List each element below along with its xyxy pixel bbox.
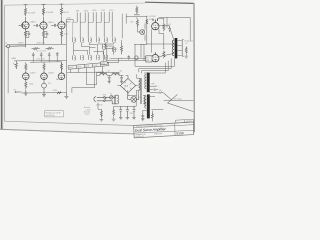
svg-text:6AU6: 6AU6 (56, 78, 60, 81)
B+ chain resistor R21 (136, 6, 138, 14)
wire cathode bus left (26, 38, 62, 44)
scan top-right page edge (145, 2, 194, 3)
fuse F1 (105, 96, 115, 99)
filter cap C16C (132, 106, 136, 120)
cathode resistor R5 (42, 29, 44, 38)
bypass cap C5 (43, 32, 48, 38)
svg-text:470K: 470K (53, 90, 58, 92)
bleeder resistor R30 (100, 109, 102, 118)
connector row 1 pins (73, 38, 116, 43)
resistor R24 load (185, 46, 187, 53)
wire T2 primary leads (147, 25, 174, 56)
junction dots right (135, 16, 165, 49)
bypass cap C4 (26, 31, 31, 37)
terminal strip TB1 (68, 62, 109, 69)
label to speaker (184, 41, 193, 46)
pot R11 (13, 61, 17, 69)
cap C6 (32, 52, 35, 57)
filter cap C15A (108, 75, 111, 83)
svg-text:470: 470 (48, 83, 51, 85)
tube V1 (22, 22, 29, 29)
resistor R20 (136, 19, 138, 27)
input jack J2 (15, 91, 22, 93)
cap C7 (40, 52, 43, 57)
B+ feed arrow 2 (42, 4, 46, 8)
wire mid verticals (8, 48, 57, 93)
wire cable cross ties (73, 22, 109, 38)
wire T1 sec leads (137, 74, 139, 96)
grid resistor R9 (32, 47, 40, 49)
svg-text:.02 .02 250K: .02 .02 250K (36, 50, 47, 52)
wire output chevron (164, 93, 194, 112)
T3 primary winding (145, 74, 146, 89)
filter cap C16A (119, 106, 123, 119)
wire B+ filter bus (96, 73, 119, 76)
wire input run (12, 45, 25, 48)
svg-text:not 20% (5): not 20% (5) (46, 114, 55, 117)
plate resistor R22 (163, 23, 165, 31)
ground lower right (64, 93, 68, 99)
svg-text:5198: 5198 (176, 131, 184, 135)
junction bias node (121, 58, 122, 59)
resistor R26 on B+ riser (146, 19, 148, 24)
power transformer T1 secondary (139, 78, 146, 104)
svg-text:16: 16 (185, 43, 187, 45)
svg-text:+: + (118, 107, 119, 109)
svg-text:47-7208: 47-7208 (28, 12, 36, 14)
svg-text:Cal Output: Cal Output (174, 97, 183, 100)
wire feedback loop inner (139, 58, 171, 72)
svg-text:GAIN: GAIN (11, 57, 16, 60)
svg-text:115 V: 115 V (109, 10, 114, 12)
wire cable pair 5 (109, 12, 112, 37)
svg-text:+ 40: + 40 (106, 71, 110, 73)
resistor R17 horizontal (57, 92, 61, 94)
svg-text:MOD: MOD (84, 10, 89, 12)
wire bridge leads (117, 75, 137, 95)
scan right page edge (193, 3, 195, 133)
label cable designations (76, 10, 114, 13)
wire cable pair 4 (101, 12, 104, 37)
svg-text:C16: C16 (129, 113, 132, 115)
title block text (135, 127, 167, 133)
svg-text:PL: PL (139, 97, 141, 99)
screen resistor R23 (163, 51, 165, 59)
label terminal strip cells (69, 64, 106, 69)
wire strip drops (71, 66, 103, 85)
svg-text:1: 1 (158, 86, 159, 88)
note box (45, 111, 64, 117)
ground V5 cathode (42, 92, 46, 97)
svg-text:SW: SW (103, 94, 106, 96)
wire bias horizontals (103, 45, 145, 63)
T3 tap cap C14 (150, 88, 158, 90)
wire output link horizontal (164, 99, 194, 101)
wire heater bus left (67, 72, 105, 93)
wire lower input run (21, 92, 63, 94)
switch S1 (100, 97, 106, 102)
svg-text:12AU7: 12AU7 (30, 72, 36, 75)
tube V3 (58, 22, 65, 29)
output tube V8 (152, 52, 159, 62)
grid coupling cap C3 (51, 24, 58, 27)
modulation transformer T3 core upper (147, 73, 150, 93)
cap C9 (56, 52, 59, 57)
output transformer T2 core (175, 38, 178, 58)
ground R31 (112, 117, 116, 121)
wire Q1 links (137, 23, 145, 40)
cap C13 electrolytic (168, 26, 171, 32)
tube V5 (41, 72, 48, 80)
wire interbay crossings (73, 42, 113, 55)
resistor R2 plate load (42, 8, 44, 16)
choke L1 (100, 73, 107, 76)
filter cap C15B (120, 75, 123, 83)
svg-text:values: values (85, 114, 90, 116)
wire left col to V6 (62, 62, 67, 93)
bridge rectifier BR1 (120, 78, 135, 92)
svg-text:115V 60: 115V 60 (96, 105, 103, 107)
wire feedback loop third (141, 61, 168, 73)
grid resistor R10 (46, 47, 54, 49)
ground R30 (100, 118, 104, 122)
resistor R3 plate load (60, 8, 62, 16)
svg-text:+: + (125, 107, 126, 109)
svg-text:F1: F1 (110, 94, 112, 96)
power transformer T1 primary (105, 95, 119, 104)
cathode resistor R15 (25, 80, 27, 89)
svg-text:68-03: 68-03 (63, 12, 69, 14)
svg-text:6V6: 6V6 (149, 19, 152, 21)
wire T3 bottom links (143, 110, 153, 121)
wire heater drops bottom (72, 73, 97, 93)
bias resistor R18 (120, 43, 122, 55)
cathode resistor R6 (60, 29, 62, 38)
tube V4 (23, 72, 30, 80)
grid coupling cap C2 (33, 24, 40, 27)
connector row 2 pins (73, 47, 116, 60)
wire V3 plate (61, 16, 63, 21)
T3 bottom resistor R32 (151, 112, 153, 119)
wire top right feed (122, 14, 147, 45)
modulation transformer T3 core lower (147, 94, 150, 118)
title block (134, 119, 194, 138)
scan left edge (1, 0, 3, 130)
scan bottom page edge (0, 129, 194, 134)
cathode pot R16 (42, 80, 47, 92)
speaker terminal bracket (182, 40, 183, 57)
B+ feed arrow 1 (24, 4, 28, 8)
svg-text:COM: COM (101, 10, 106, 12)
choke L2 (112, 73, 119, 76)
wire choke row (100, 73, 124, 76)
svg-text:220K 47K: 220K 47K (37, 42, 46, 44)
tube V2 (40, 22, 47, 29)
wire cable pair 2 (85, 12, 88, 37)
resistor R12 vertical (25, 62, 27, 71)
svg-text:12AU7: 12AU7 (48, 72, 54, 75)
terminal cell aux (101, 62, 108, 65)
T3 tap stub 1 (150, 85, 157, 86)
T3 tap resistor R25 (158, 92, 163, 94)
svg-text:47-0508: 47-0508 (46, 12, 54, 14)
svg-text:DATE 6-12: DATE 6-12 (136, 135, 144, 138)
wire plate feed V3 (66, 20, 73, 73)
ground R24 (184, 54, 188, 58)
T3 tap stub 2 (150, 93, 159, 97)
svg-text:+B 250V: +B 250V (148, 16, 156, 18)
grid coupling cap C1 (19, 24, 26, 27)
cathode resistor R4 (24, 29, 26, 38)
B+ feed arrow 3 (60, 4, 64, 8)
svg-text:P2: P2 (14, 89, 16, 91)
frame border (3, 5, 5, 121)
wire ac risers (98, 90, 139, 109)
svg-text:J-1017: J-1017 (186, 121, 192, 123)
notes text (84, 106, 91, 115)
ground V4 cathode (24, 90, 28, 96)
interlock box SW2 (146, 56, 152, 62)
svg-text:2 W: 2 W (159, 90, 162, 92)
T3 secondary winding (145, 97, 146, 109)
resistor R14 vertical (60, 62, 62, 71)
cap C8 (48, 52, 51, 57)
wire top row bus (8, 43, 66, 46)
input jack J1 (5, 45, 12, 48)
svg-text:12AX7: 12AX7 (48, 21, 55, 24)
phase inverter tube V7 (152, 19, 159, 30)
transistor Q1 (139, 30, 145, 35)
wire filter top bus (114, 96, 137, 108)
wire inverter couplings (152, 18, 164, 52)
wire T2 secondary leads (177, 41, 181, 56)
T3 bottom cap C17 (141, 113, 144, 120)
wire feedback loop outer (135, 26, 174, 66)
wire OP bottom stub (151, 109, 163, 111)
dropping resistor R31 (113, 108, 115, 116)
wire cable pair 1 (77, 13, 80, 38)
wire cable pair 3 (93, 12, 96, 37)
relay coil K1 (135, 56, 138, 59)
svg-text:+300: +300 (66, 17, 70, 19)
resistor R1 plate load (24, 8, 26, 16)
wire V2 plate (43, 17, 45, 23)
wire V1 plate (25, 17, 27, 22)
bias cap C11 (128, 55, 131, 59)
wire feedback top loop (159, 17, 191, 40)
resistor R13 vertical (43, 62, 45, 71)
page background (0, 0, 200, 141)
svg-text:12AX7: 12AX7 (30, 21, 37, 24)
B+ chain cap C12 (134, 15, 140, 19)
wire bias verticals (122, 40, 145, 61)
output transformer T2 primary (172, 40, 174, 55)
connector pin P4 (102, 44, 105, 49)
svg-text:1 MEG: 1 MEG (18, 43, 24, 45)
AC plug P3 (94, 97, 100, 102)
pilot lamp PL1 (128, 95, 140, 102)
svg-text:MOD: MOD (92, 10, 97, 12)
tube V6 (58, 72, 65, 80)
wire mid horizontals (14, 60, 67, 62)
svg-text:+40: +40 (119, 70, 122, 72)
filter cap C16B (126, 106, 130, 120)
